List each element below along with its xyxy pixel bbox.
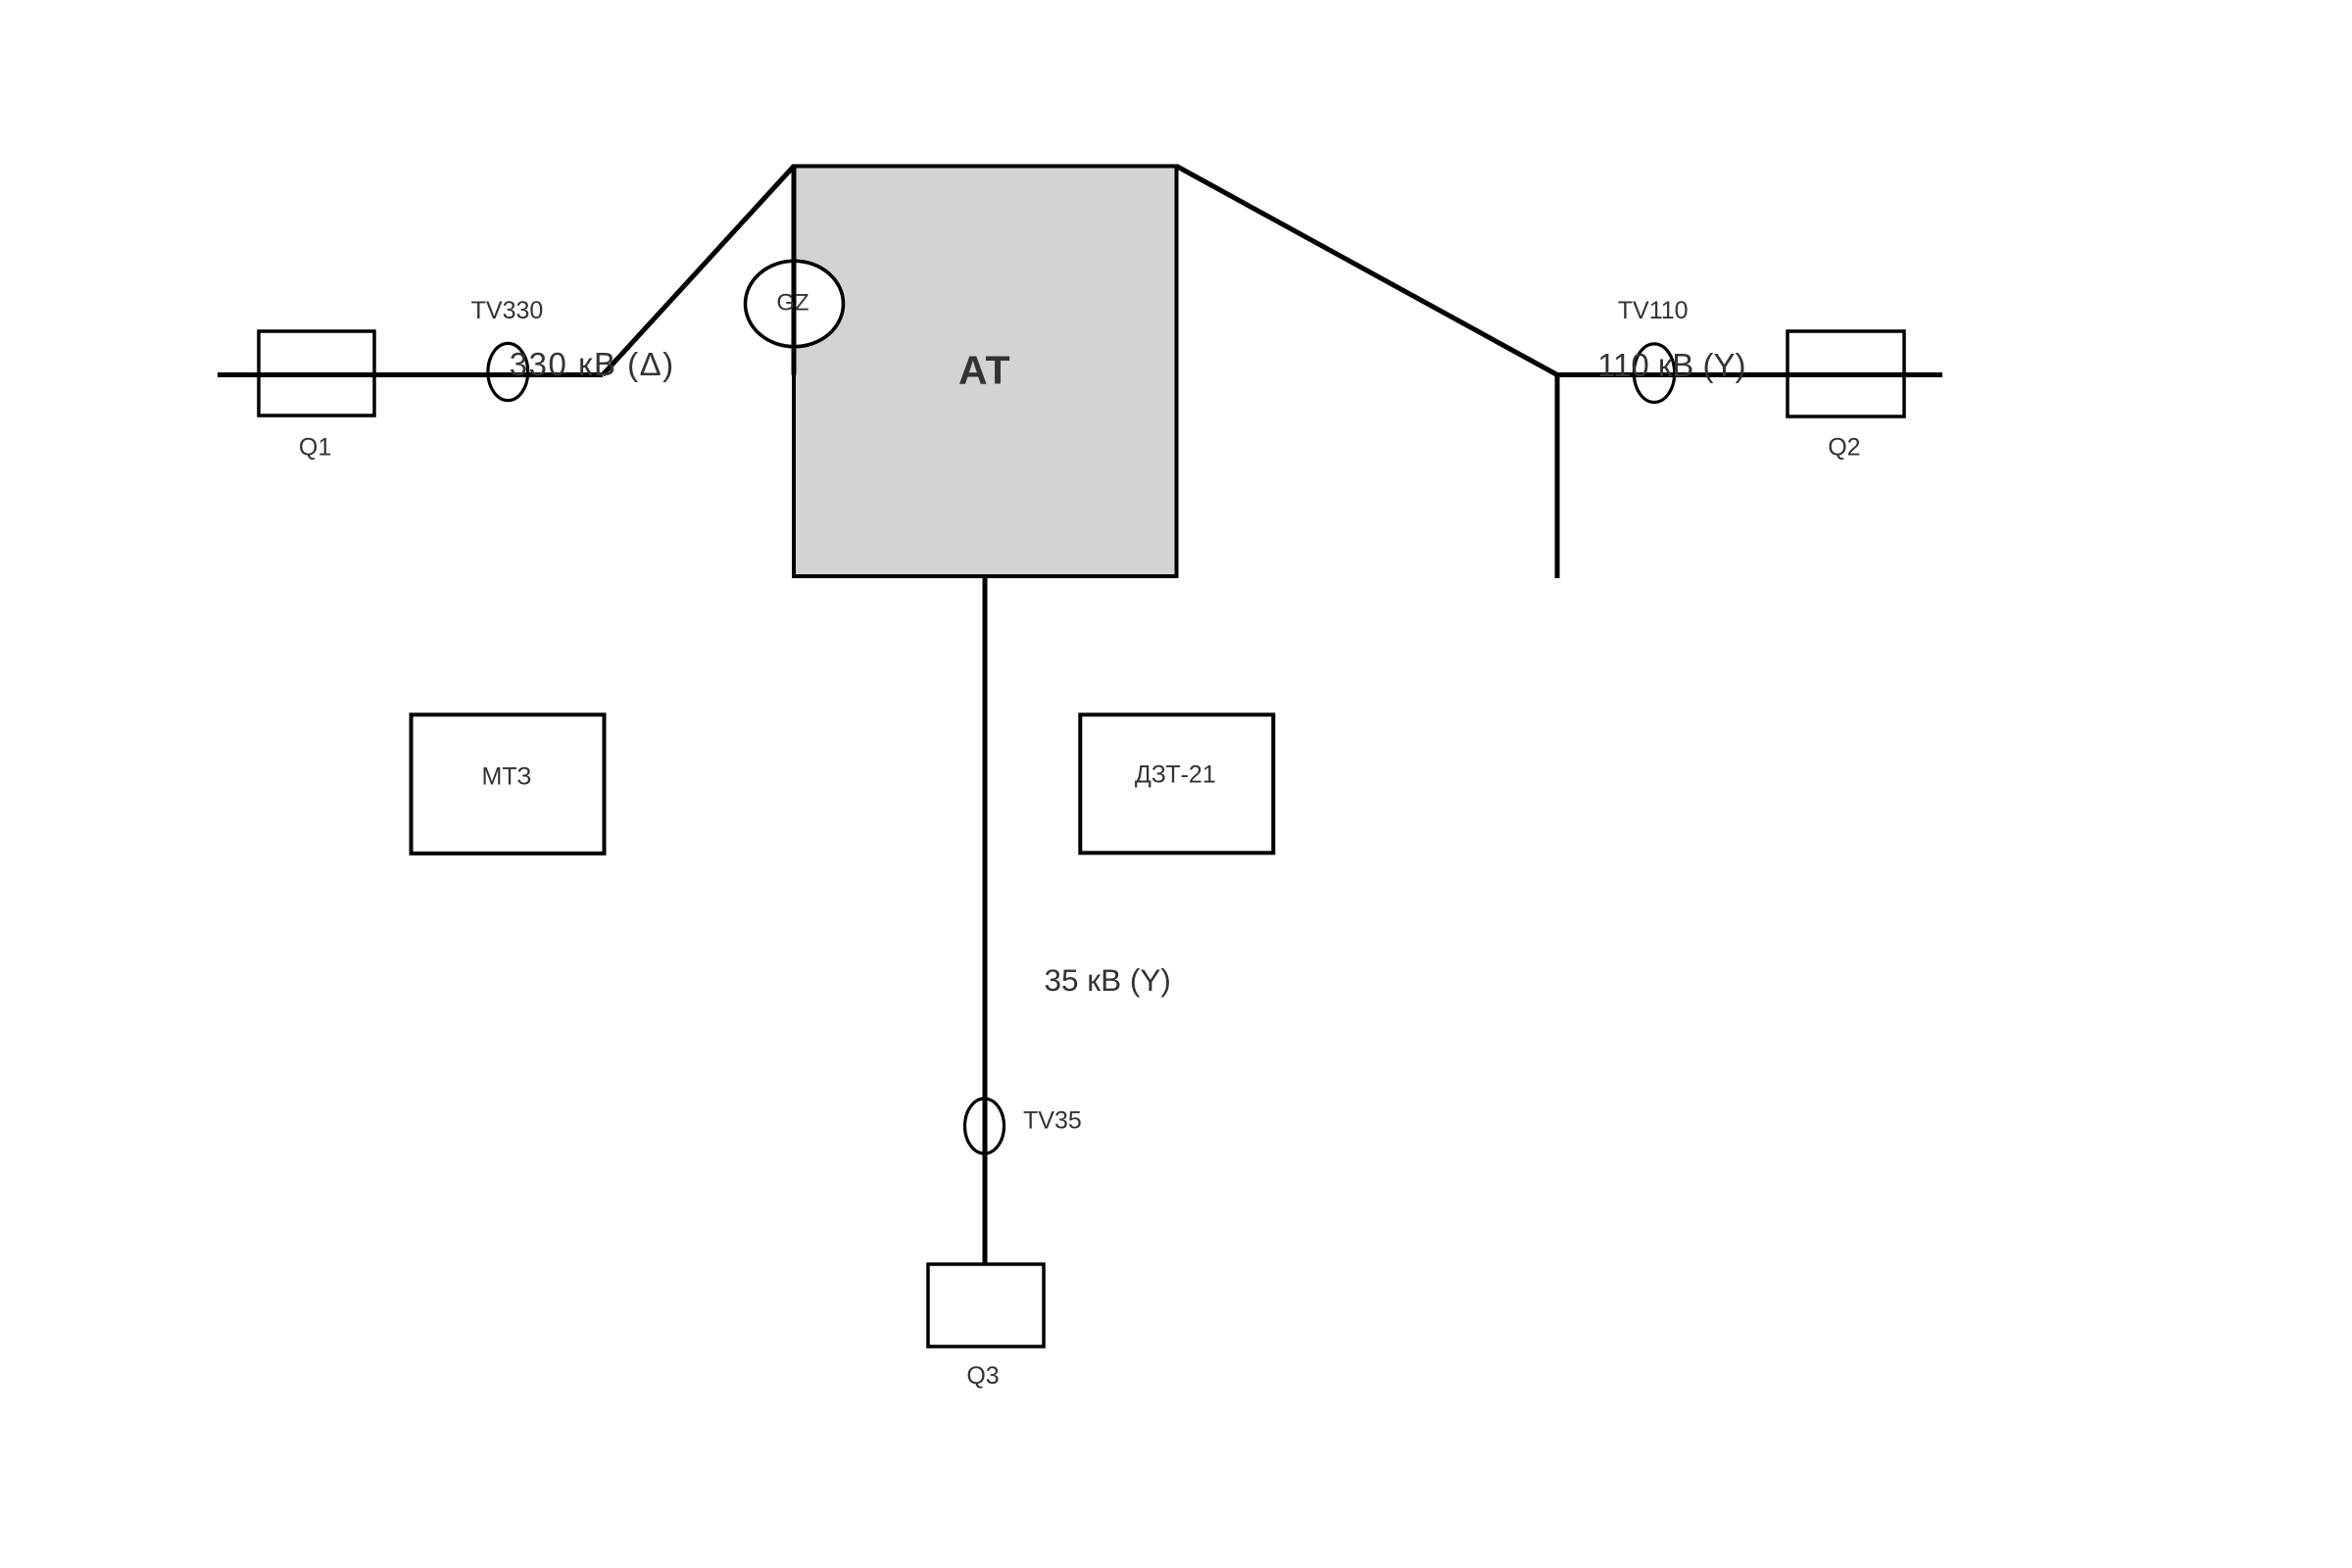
svg-text:TV110: TV110 (1618, 297, 1689, 324)
wire 110 kV bus (right horizontal) (1557, 372, 1942, 377)
svg-text:110 кВ (Y): 110 кВ (Y) (1597, 347, 1745, 383)
svg-text:МТЗ: МТЗ (482, 763, 532, 791)
wire 35 kV feeder (vertical from AT bottom) (983, 576, 988, 1264)
wire 330 kV riser (diagonal to AT top-left) (603, 167, 794, 375)
CT TV35 (965, 1099, 1004, 1153)
relay box DZT-21 (1080, 714, 1273, 853)
CT TV330 (488, 343, 528, 400)
relay box MTZ (412, 714, 605, 854)
gas relay GZ (746, 261, 844, 346)
svg-text:35 кВ (Y): 35 кВ (Y) (1045, 962, 1171, 998)
svg-text:Q2: Q2 (1828, 434, 1860, 462)
breaker Q2 (1788, 331, 1904, 416)
breaker Q3 (928, 1264, 1044, 1347)
svg-text:Q3: Q3 (966, 1362, 999, 1390)
breaker Q1 (259, 331, 374, 416)
wire AT left edge over GZ (792, 167, 797, 375)
wire 110 kV stub (vertical drop at junction) (1555, 375, 1560, 579)
svg-text:ДЗТ-21: ДЗТ-21 (1135, 761, 1216, 789)
svg-text:TV330: TV330 (471, 297, 544, 324)
svg-text:TV35: TV35 (1023, 1107, 1082, 1135)
CT TV110 (1634, 344, 1674, 403)
wire 110 kV riser (diagonal from AT top-right) (1177, 167, 1558, 375)
svg-text:АТ: АТ (958, 348, 1010, 393)
autotransformer AT (794, 167, 1177, 577)
svg-text:Q1: Q1 (299, 434, 331, 462)
svg-text:330 кВ (Δ): 330 кВ (Δ) (510, 346, 675, 382)
wire 330 kV bus (left horizontal) (218, 372, 603, 377)
svg-text:GZ: GZ (776, 289, 808, 316)
